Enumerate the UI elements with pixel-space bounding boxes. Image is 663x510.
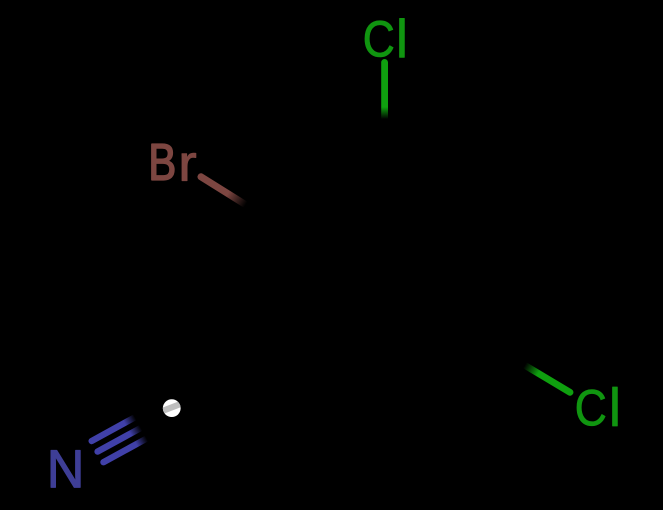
atom label Cl (bottom right): glyph C: [577, 390, 605, 426]
bond C2-Br (maroon half-bond): [201, 177, 249, 207]
atom label Cl (top): glyph C: [365, 21, 393, 57]
bond C3-Cl (top, green half-bond): [381, 62, 388, 122]
triple bond C#N line 3 (bottom): [104, 439, 147, 463]
triple bond C#N line 2 (middle): [98, 428, 141, 452]
atom label N: [51, 451, 80, 488]
nitrile carbon dot (white sphere): [157, 399, 187, 417]
atom label Cl (top): glyph l: [400, 19, 405, 58]
bond C5-Cl (bottom right, green half-bond): [522, 363, 571, 392]
triple bond C#N line 1 (top): [92, 417, 135, 441]
atom label Br: glyph B: [152, 144, 174, 180]
atom label Br: glyph r: [182, 153, 196, 180]
atom label Cl (bottom right): glyph l: [613, 387, 618, 426]
